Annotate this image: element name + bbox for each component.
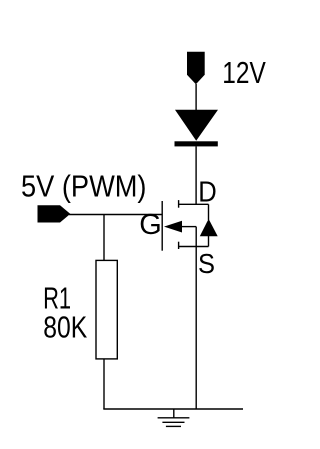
wire resistor to bottom rail bbox=[103, 359, 105, 409]
gate wire bbox=[69, 214, 162, 216]
transistor Q1 drain channel tick bbox=[178, 200, 180, 208]
input tag 5V (PWM) bbox=[38, 205, 71, 222]
wire source to bottom rail bbox=[195, 227, 197, 409]
transistor Q1 body line bbox=[181, 226, 196, 228]
ground bar 2 bbox=[162, 421, 184, 423]
transistor Q1 source channel tick bbox=[178, 242, 180, 249]
ground bar 3 bbox=[166, 425, 181, 427]
bottom rail wire bbox=[103, 408, 243, 410]
wire gate junction to resistor bbox=[103, 215, 105, 261]
transistor Q1 gate line bbox=[161, 201, 163, 251]
resistor R1 body bbox=[96, 260, 117, 359]
transistor Q1 body-diode top lead bbox=[208, 204, 210, 220]
wire tag to diode bbox=[195, 84, 197, 111]
svg-text:80K: 80K bbox=[43, 310, 87, 345]
supply tag 12V bbox=[187, 52, 205, 85]
wire diode to drain bbox=[195, 146, 197, 204]
svg-text:S: S bbox=[198, 248, 215, 279]
diode D1 cathode bar bbox=[175, 141, 218, 146]
svg-text:12V: 12V bbox=[222, 55, 266, 90]
transistor Q1 body-diode arrow bbox=[200, 219, 218, 236]
ground bar 1 bbox=[158, 417, 190, 419]
transistor Q1 body arrow bbox=[164, 221, 182, 233]
ground stem bbox=[173, 409, 175, 418]
transistor Q1 drain stub bbox=[179, 203, 209, 205]
transistor Q1 source stub bbox=[179, 246, 209, 248]
svg-text:5V (PWM): 5V (PWM) bbox=[21, 168, 147, 203]
svg-text:D: D bbox=[198, 176, 217, 208]
transistor Q1 body-diode bottom lead bbox=[208, 236, 210, 247]
diode D1 anode triangle bbox=[175, 110, 218, 141]
